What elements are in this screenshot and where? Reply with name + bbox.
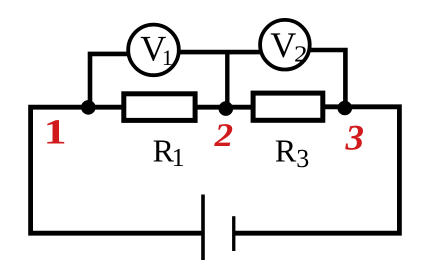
svg-text:1: 1	[172, 143, 185, 172]
svg-text:R: R	[275, 133, 297, 169]
svg-text:2: 2	[294, 42, 308, 67]
svg-text:1: 1	[162, 45, 173, 70]
svg-text:2: 2	[213, 118, 233, 154]
svg-text:1: 1	[44, 112, 67, 152]
svg-text:V: V	[270, 25, 296, 65]
svg-text:3: 3	[344, 117, 364, 157]
svg-text:3: 3	[296, 144, 309, 173]
